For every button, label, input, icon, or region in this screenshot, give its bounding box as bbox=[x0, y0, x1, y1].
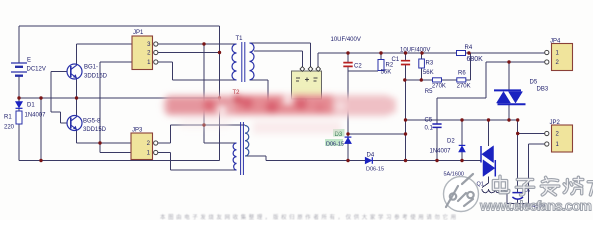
svg-text:E: E bbox=[27, 58, 31, 64]
svg-text:D06-15: D06-15 bbox=[326, 142, 344, 148]
svg-text:D06-15: D06-15 bbox=[366, 167, 384, 173]
svg-text:D1: D1 bbox=[27, 103, 35, 109]
svg-text:3DD15D: 3DD15D bbox=[83, 127, 107, 133]
svg-text:10UF/400V: 10UF/400V bbox=[400, 48, 430, 54]
svg-text:JP1: JP1 bbox=[133, 30, 144, 36]
svg-text:R6: R6 bbox=[458, 71, 466, 77]
svg-text:www.elecfans.com: www.elecfans.com bbox=[479, 198, 592, 214]
svg-text:BG5-8: BG5-8 bbox=[83, 119, 101, 125]
svg-text:R4: R4 bbox=[465, 45, 473, 51]
svg-text:D4: D4 bbox=[367, 153, 375, 159]
svg-text:C2: C2 bbox=[354, 64, 362, 70]
svg-text:T1: T1 bbox=[236, 36, 244, 42]
svg-text:0.1: 0.1 bbox=[425, 126, 434, 132]
svg-text:R5: R5 bbox=[425, 89, 433, 95]
svg-text:1N4007: 1N4007 bbox=[25, 113, 47, 119]
svg-text:D5: D5 bbox=[530, 80, 538, 86]
svg-text:本图由电子发烧友网收集整理，版权归原作者所有，仅供大家学习参: 本图由电子发烧友网收集整理，版权归原作者所有，仅供大家学习参考使用请勿它用 bbox=[160, 213, 456, 220]
svg-text:DB3: DB3 bbox=[537, 87, 549, 93]
svg-text:1N4007: 1N4007 bbox=[430, 148, 452, 154]
svg-text:JP3: JP3 bbox=[132, 128, 143, 134]
svg-text:C5: C5 bbox=[425, 118, 433, 124]
svg-text:R1: R1 bbox=[4, 115, 12, 121]
svg-text:270K: 270K bbox=[432, 84, 446, 90]
svg-text:D2: D2 bbox=[447, 139, 455, 145]
svg-text:220: 220 bbox=[4, 125, 15, 131]
svg-text:10UF/400V: 10UF/400V bbox=[331, 37, 361, 43]
svg-text:DC12V: DC12V bbox=[27, 67, 46, 73]
svg-text:JP4: JP4 bbox=[550, 39, 561, 45]
svg-text:680K: 680K bbox=[467, 56, 484, 63]
svg-text:270K: 270K bbox=[457, 84, 471, 90]
svg-text:BG1-: BG1- bbox=[84, 65, 98, 71]
svg-text:56K: 56K bbox=[381, 70, 392, 76]
svg-text:R3: R3 bbox=[426, 61, 434, 67]
svg-text:R2: R2 bbox=[386, 63, 394, 69]
svg-text:3DD15D: 3DD15D bbox=[84, 74, 108, 80]
svg-text:JP2: JP2 bbox=[550, 120, 561, 126]
svg-text:56K: 56K bbox=[423, 70, 434, 76]
